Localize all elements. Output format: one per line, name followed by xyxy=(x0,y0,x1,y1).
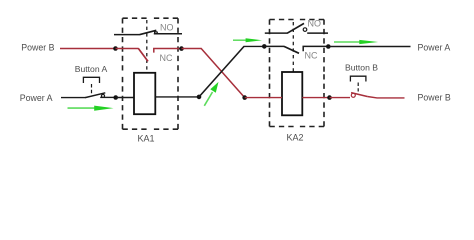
KA2 mechanical link dashed line xyxy=(292,22,294,73)
relay KA1 coil xyxy=(134,73,155,114)
svg-text:Button B: Button B xyxy=(345,63,378,73)
svg-text:Power B: Power B xyxy=(21,43,54,53)
relay KA2 coil xyxy=(282,72,302,115)
green flow arrow under Power A xyxy=(68,106,114,111)
KA1 NC contact (open, red) xyxy=(116,48,182,61)
wire red bottom to KA2 coil xyxy=(245,97,282,99)
green flow arrow after KA2 xyxy=(334,40,378,44)
wire node to KA1 coil xyxy=(116,97,134,99)
wire red to Button B xyxy=(330,97,351,99)
svg-text:NC: NC xyxy=(160,53,173,63)
wire red KA2 coil to right node xyxy=(302,97,329,99)
relay KA1 dashed box xyxy=(123,18,179,129)
wire black crossover diagonal (up-right) xyxy=(199,46,244,97)
KA2 NC contact (closed) xyxy=(264,46,329,53)
wire Power A right out xyxy=(328,46,410,48)
node junction red diagonal to bottom rail xyxy=(242,95,247,100)
button B push-button bracket xyxy=(350,76,366,81)
svg-text:KA1: KA1 xyxy=(137,134,154,144)
KA1 NO contact (closed) xyxy=(114,30,182,34)
wire black to KA2 NC left node xyxy=(244,45,265,47)
green flow arrow on diagonal xyxy=(204,82,218,106)
button B actuator dashed stem xyxy=(357,83,359,92)
button A contact circle xyxy=(101,94,104,97)
wire red from KA1 NC to crossover xyxy=(182,48,202,50)
green flow arrow before KA2 xyxy=(233,38,262,42)
button A actuator dashed stem xyxy=(91,84,93,94)
KA1 mechanical link dashed line xyxy=(146,20,148,74)
node junction right of KA1 coil xyxy=(197,95,202,100)
svg-text:Button A: Button A xyxy=(75,64,108,74)
node junction right of KA2 NC xyxy=(326,44,331,49)
button A switch lever xyxy=(85,93,105,98)
svg-text:NC: NC xyxy=(305,50,318,60)
wire button A to KA1 coil node xyxy=(100,96,116,98)
button A push-button bracket xyxy=(83,77,99,83)
wire Power A left (black) xyxy=(61,97,86,99)
wire KA1 coil to right node xyxy=(155,96,199,98)
KA2 NO contact (open) xyxy=(265,23,328,33)
svg-text:Power A: Power A xyxy=(418,42,451,52)
svg-text:NO: NO xyxy=(160,22,174,32)
wire red crossover diagonal (down-right) xyxy=(201,49,245,98)
wire Power B right out xyxy=(367,97,404,98)
svg-text:Power A: Power A xyxy=(20,93,53,103)
wire Power B left (red) xyxy=(60,48,116,50)
node junction left of KA1 NC xyxy=(113,46,118,51)
button B switch lever (open) xyxy=(351,93,367,97)
relay KA2 dashed box xyxy=(270,20,325,127)
svg-text:NO: NO xyxy=(308,19,322,29)
node junction right of KA1 NC xyxy=(179,46,184,51)
button B contact circle xyxy=(351,93,355,97)
svg-text:KA2: KA2 xyxy=(286,133,303,143)
node junction left of KA1 coil xyxy=(113,95,118,100)
node junction left of KA2 NC xyxy=(262,44,267,49)
node junction right of KA2 coil xyxy=(327,95,332,100)
svg-text:Power B: Power B xyxy=(418,92,451,102)
